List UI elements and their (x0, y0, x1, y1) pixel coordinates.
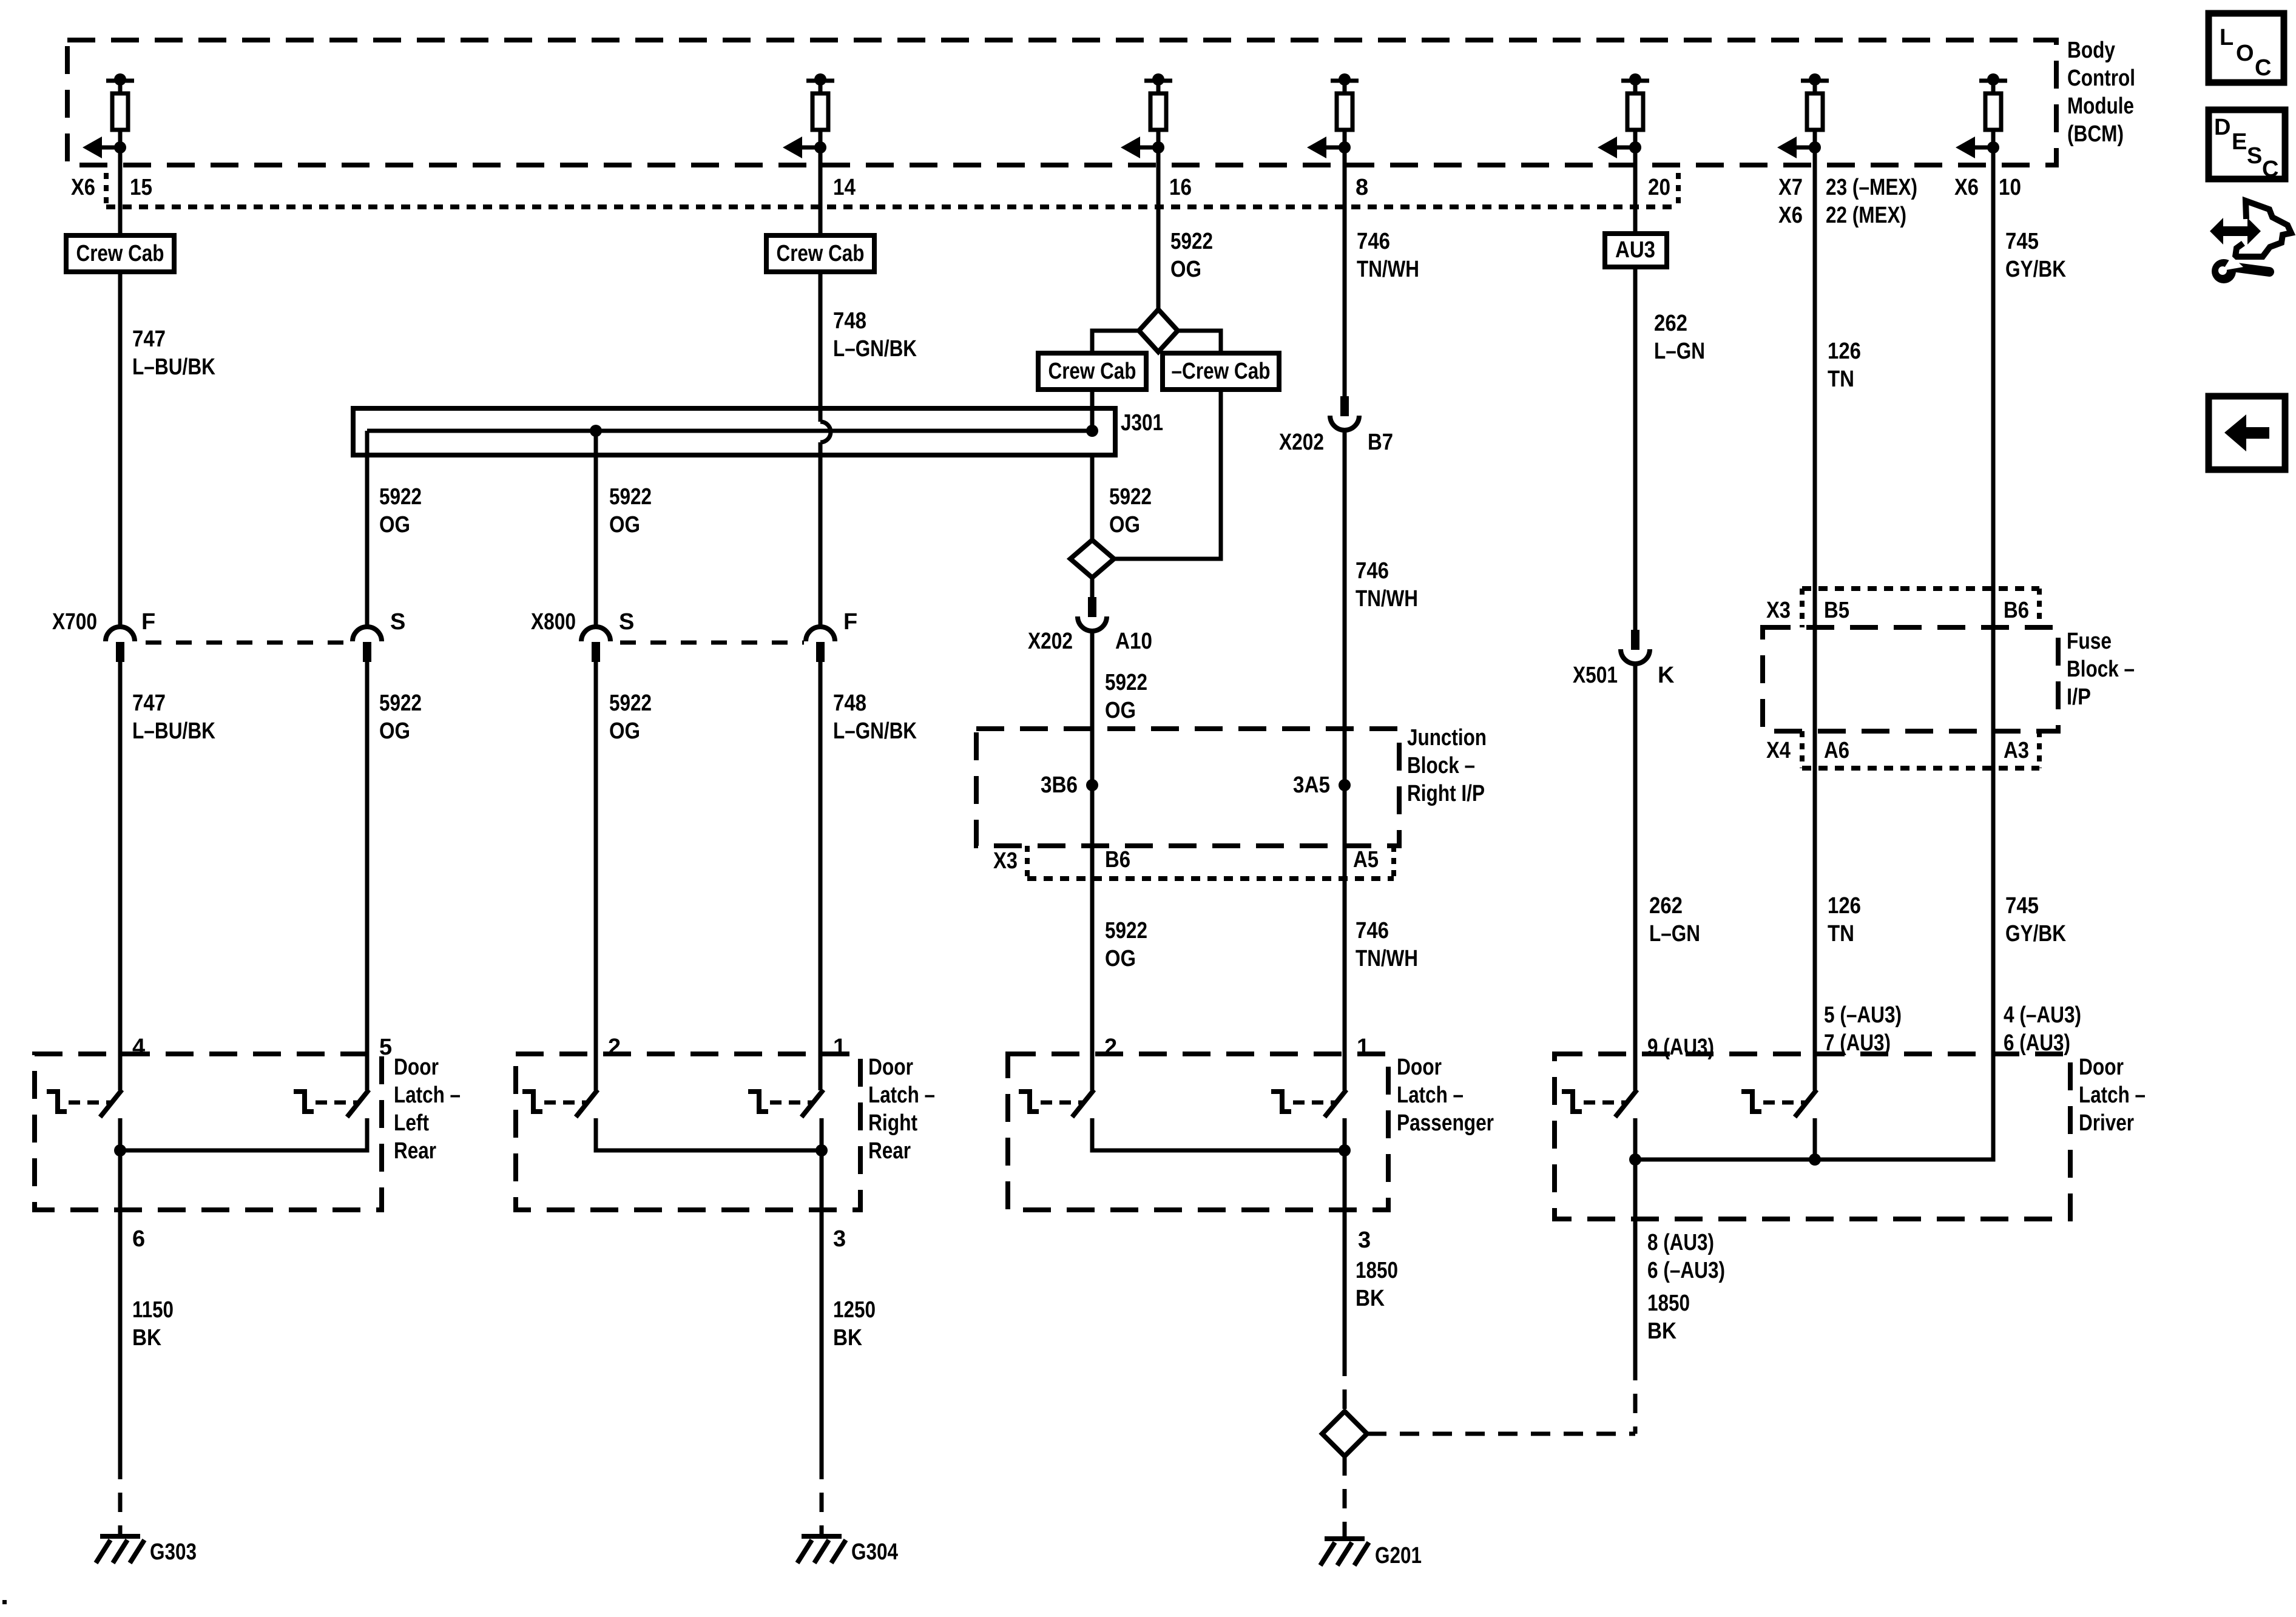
switch blade (right rear, pin1) (802, 1090, 823, 1117)
svg-text:X6: X6 (71, 175, 95, 200)
svg-text:5: 5 (379, 1035, 392, 1060)
svg-text:20: 20 (1648, 175, 1670, 200)
junction dot col3 bus (590, 425, 602, 437)
svg-text:23 (–MEX): 23 (–MEX) (1826, 175, 1917, 200)
svg-text:14: 14 (833, 175, 856, 200)
svg-text:3: 3 (833, 1226, 846, 1252)
rejoin diamond (option merge) (1070, 540, 1114, 578)
svg-text:X7: X7 (1778, 175, 1803, 200)
junction dot left rear (114, 1144, 126, 1156)
dashed wire splice diamond to G201 (1343, 1456, 1347, 1536)
svg-text:OG: OG (1170, 257, 1201, 282)
svg-text:OG: OG (609, 512, 640, 538)
svg-text:OG: OG (379, 718, 410, 744)
wire 5922 OG from pin 16 (1156, 165, 1161, 309)
svg-text:747: 747 (132, 326, 166, 352)
svg-text:3B6: 3B6 (1041, 772, 1078, 798)
svg-text:L: L (2220, 25, 2234, 50)
svg-text:4 (–AU3): 4 (–AU3) (2004, 1002, 2081, 1028)
svg-text:746: 746 (1356, 918, 1389, 944)
Body Control Module (BCM) dashed box (67, 40, 2056, 165)
ajar switch plunger (driver, pins 5/7) (1741, 1092, 1761, 1112)
svg-text:748: 748 (833, 690, 866, 716)
switch blade (right rear, pin2) (576, 1090, 598, 1117)
junction dot passenger (1339, 1144, 1351, 1156)
wire 747 lower segment (118, 662, 123, 1090)
switch blade (passenger, pin1) (1325, 1090, 1346, 1117)
svg-text:262: 262 (1654, 311, 1687, 336)
BCM internal driver / resistor at pin column 7 (1979, 79, 2007, 83)
svg-text:Door: Door (868, 1055, 913, 1080)
svg-text:A6: A6 (1824, 738, 1849, 763)
svg-text:GY/BK: GY/BK (2005, 921, 2066, 947)
svg-text:X4: X4 (1766, 738, 1791, 763)
BCM internal driver / resistor at pin column 5 (1621, 79, 1649, 83)
Door Latch - Left Rear dashed box (35, 1054, 382, 1210)
svg-text:5922: 5922 (1170, 229, 1213, 254)
junction dot driver pin9 (1629, 1153, 1641, 1166)
svg-text:F: F (843, 609, 857, 635)
svg-text:6: 6 (132, 1226, 145, 1252)
Door Latch - Driver dashed box (1555, 1054, 2070, 1219)
BCM internal driver / resistor at pin column 1 (106, 79, 134, 83)
back arrow icon box (2209, 396, 2285, 470)
junction dot right rear (815, 1144, 828, 1156)
wire below switch pin2 + jog to pin1 wire (1092, 1118, 1345, 1150)
switch blade (left rear, pin5) (347, 1090, 369, 1117)
ajar switch plunger (right rear, pin1) (748, 1092, 768, 1112)
svg-text:Control: Control (2067, 66, 2135, 91)
svg-text:16: 16 (1169, 175, 1192, 200)
wire col5 to junction block (1090, 631, 1095, 785)
svg-text:OG: OG (609, 718, 640, 744)
ajar switch plunger (left rear, pin4) (47, 1092, 67, 1112)
svg-text:J301: J301 (1121, 410, 1163, 436)
svg-text:Block –: Block – (1407, 753, 1475, 778)
LOC icon box (2209, 13, 2284, 83)
svg-text:8 (AU3): 8 (AU3) (1647, 1230, 1714, 1255)
BCM output arrow (1974, 146, 1993, 150)
Fuse Block - I/P dashed box (1763, 627, 2058, 731)
svg-text:126: 126 (1828, 893, 1861, 919)
BCM output arrow (1616, 146, 1635, 150)
wire below switch pin1 through box (820, 1118, 824, 1460)
svg-text:AU3: AU3 (1615, 237, 1655, 263)
svg-text:X6: X6 (1954, 175, 1979, 200)
svg-text:Block –: Block – (2067, 657, 2135, 682)
wire pin14 to Crew Cab option box (819, 165, 823, 235)
dashed wire to G303 (118, 1460, 123, 1534)
wire 746 from pin 8 (1343, 165, 1347, 396)
svg-text:1150: 1150 (132, 1297, 174, 1323)
svg-text:7 (AU3): 7 (AU3) (1824, 1030, 1891, 1056)
svg-text:5 (–AU3): 5 (–AU3) (1824, 1002, 1902, 1028)
svg-text:–Crew Cab: –Crew Cab (1172, 359, 1271, 384)
svg-text:S: S (2247, 143, 2262, 169)
splice pack J301 box (353, 408, 1115, 455)
svg-text:GY/BK: GY/BK (2005, 257, 2066, 282)
ground G304 (802, 1534, 842, 1539)
svg-text:747: 747 (132, 690, 166, 716)
wire 126 TN from pins 23/22 (1813, 165, 1817, 1090)
wire col4 lower segment (819, 662, 823, 1090)
svg-text:Rear: Rear (394, 1138, 436, 1164)
Door Latch - Passenger dashed box (1008, 1054, 1388, 1210)
svg-text:Junction: Junction (1407, 725, 1487, 751)
splice diamond (ground splice) (1322, 1411, 1367, 1456)
wire below switch pin1 through box (1343, 1118, 1347, 1357)
svg-text:15: 15 (130, 175, 152, 200)
svg-text:5922: 5922 (609, 484, 652, 510)
connector X800 pin S (in-line) (581, 627, 610, 641)
BCM internal driver / resistor at pin column 2 (806, 79, 834, 83)
svg-text:10: 10 (1999, 175, 2021, 200)
svg-text:L–GN/BK: L–GN/BK (833, 718, 917, 744)
svg-text:BK: BK (833, 1325, 862, 1351)
svg-text:126: 126 (1828, 339, 1861, 364)
branch to -Crew Cab (1178, 331, 1221, 353)
svg-text:22 (MEX): 22 (MEX) (1826, 203, 1906, 228)
svg-text:G303: G303 (150, 1539, 197, 1565)
svg-text:OG: OG (1105, 946, 1136, 971)
wire J301 to rejoin diamond (1090, 455, 1095, 540)
svg-text:S: S (619, 609, 634, 635)
BCM internal driver / resistor at pin column 4 (1331, 79, 1359, 83)
wire 5922 from J301 to X800 (594, 431, 598, 627)
J301 internal bus (367, 429, 1092, 433)
svg-text:Door: Door (1397, 1055, 1442, 1080)
ajar switch plunger (passenger, pin1) (1271, 1092, 1291, 1112)
wire -Crew Cab box to rejoin diamond (1114, 390, 1221, 559)
svg-text:Crew Cab: Crew Cab (76, 241, 164, 266)
svg-text:D: D (2214, 115, 2230, 140)
switch blade (passenger, pin2) (1072, 1090, 1094, 1117)
BCM output arrow (1139, 146, 1158, 150)
svg-text:C: C (2255, 55, 2271, 81)
svg-text:1850: 1850 (1356, 1258, 1398, 1283)
wire 745 GY/BK from pin 10 (1991, 165, 1996, 1054)
svg-text:2: 2 (1104, 1035, 1117, 1060)
svg-text:X202: X202 (1279, 430, 1324, 455)
wire 747 upper segment (118, 272, 123, 627)
wire col5 to passenger latch (1090, 879, 1095, 1090)
splice diamond (Crew Cab option split) (1139, 309, 1178, 352)
svg-text:Right: Right (868, 1110, 917, 1136)
ground G201 (1325, 1536, 1365, 1541)
svg-text:TN: TN (1828, 366, 1854, 392)
svg-text:X3: X3 (1766, 598, 1791, 623)
svg-text:BK: BK (1647, 1318, 1676, 1344)
wire 5922 from J301 splice (365, 431, 370, 627)
wire 748 upper segment (819, 272, 823, 408)
wire col3 lower segment (594, 662, 598, 1090)
BCM internal driver / resistor at pin column 6 (1801, 79, 1829, 83)
wire col2 lower segment (365, 662, 370, 1090)
ajar switch plunger (passenger, pin2) (1019, 1092, 1039, 1112)
svg-text:OG: OG (1109, 512, 1140, 538)
BCM output arrow (101, 146, 120, 150)
svg-text:L–BU/BK: L–BU/BK (132, 718, 215, 744)
wire col6 to junction block (1343, 430, 1347, 785)
svg-text:(BCM): (BCM) (2067, 121, 2124, 147)
svg-text:6 (AU3): 6 (AU3) (2004, 1030, 2070, 1056)
svg-text:1: 1 (833, 1035, 846, 1060)
svg-text:G201: G201 (1375, 1543, 1422, 1568)
svg-text:1: 1 (1357, 1035, 1369, 1060)
svg-text:Left: Left (394, 1110, 429, 1136)
wire col9 into driver latch (1635, 1054, 1993, 1160)
wire below switch pin4 through box (118, 1118, 123, 1460)
svg-text:3: 3 (1358, 1227, 1371, 1253)
ajar switch plunger (driver, pin9) (1562, 1092, 1582, 1112)
wire col5 junction block to X3 B6 (1090, 785, 1095, 879)
svg-text:A3: A3 (2004, 738, 2029, 763)
junction 3A5 (1339, 779, 1351, 791)
connector mating dashed line X800 S-F (620, 641, 804, 645)
BCM internal driver / resistor at pin column 3 (1144, 79, 1172, 83)
svg-text:X501: X501 (1573, 663, 1618, 688)
wire pin15 to Crew Cab option box (118, 165, 123, 235)
svg-text:OG: OG (1105, 698, 1136, 723)
wire 262 upper segment (1633, 267, 1638, 630)
connector X202 pin A10 (in-line) (1088, 597, 1096, 617)
wire col6 to passenger latch (1343, 879, 1347, 1090)
svg-text:B6: B6 (2004, 598, 2029, 623)
svg-text:Fuse: Fuse (2067, 629, 2112, 654)
svg-text:X202: X202 (1028, 629, 1073, 654)
wire below driver switches with junction bus (1633, 1118, 1638, 1361)
option box Crew Cab (col4) (766, 235, 874, 272)
BCM output arrow (1325, 146, 1345, 150)
svg-text:O: O (2236, 41, 2254, 66)
switch blade (driver, pins 5/7) (1795, 1090, 1817, 1117)
svg-text:Latch –: Latch – (868, 1082, 935, 1108)
svg-text:Latch –: Latch – (394, 1082, 461, 1108)
svg-text:5922: 5922 (1105, 670, 1147, 695)
svg-text:A10: A10 (1115, 629, 1152, 654)
Junction Block - Right I/P dashed box (976, 729, 1399, 846)
dashed wire to splice diamond (1343, 1357, 1347, 1411)
svg-text:K: K (1658, 663, 1675, 688)
BCM output arrow (1795, 146, 1815, 150)
svg-text:C: C (2262, 157, 2278, 182)
svg-text:Latch –: Latch – (2079, 1082, 2146, 1108)
wire below switch pin2 + jog to pin1 wire (596, 1118, 822, 1150)
svg-text:L–GN: L–GN (1649, 921, 1700, 947)
svg-text:Module: Module (2067, 93, 2134, 119)
ground G303 (100, 1534, 140, 1539)
svg-text:746: 746 (1356, 558, 1389, 584)
svg-text:G304: G304 (851, 1539, 898, 1565)
junction 3B6 (1086, 779, 1098, 791)
svg-text:X6: X6 (1778, 203, 1803, 228)
svg-text:745: 745 (2005, 893, 2039, 919)
wire below switch pin5 + jog to pin4 wire (120, 1118, 367, 1150)
svg-text:3A5: 3A5 (1293, 772, 1330, 798)
svg-text:X700: X700 (52, 609, 97, 635)
dashed wire to G304 (820, 1460, 824, 1534)
dashed branch from driver latch to splice diamond (1367, 1432, 1635, 1436)
Fuse Block bottom connector band X4 (dotted) (1800, 731, 1805, 768)
svg-text:Body: Body (2067, 38, 2115, 63)
svg-text:1850: 1850 (1647, 1291, 1690, 1316)
svg-text:E: E (2232, 129, 2247, 155)
connector X700 pin F (in-line) (106, 627, 135, 641)
junction dot col5 bus (1086, 425, 1098, 437)
option box Crew Cab (left) (66, 235, 174, 272)
wire diamond to X202 A10 (1090, 578, 1095, 597)
option box AU3 (1605, 234, 1667, 267)
svg-text:Right I/P: Right I/P (1407, 781, 1485, 806)
svg-text:TN/WH: TN/WH (1356, 946, 1418, 971)
svg-text:Crew Cab: Crew Cab (1048, 359, 1136, 384)
ajar switch plunger (left rear, pin5) (294, 1092, 314, 1112)
svg-text:Door: Door (2079, 1055, 2124, 1080)
wire 748 through J301 with hop (819, 408, 823, 422)
BCM connector band (dotted) (104, 173, 109, 207)
svg-text:5922: 5922 (379, 690, 422, 716)
BCM output arrow (801, 146, 820, 150)
svg-text:1250: 1250 (833, 1297, 876, 1323)
svg-text:OG: OG (379, 512, 410, 538)
connector X202 pin B7 (in-line) (1340, 396, 1349, 416)
svg-text:4: 4 (132, 1035, 145, 1060)
switch blade (left rear, pin4) (100, 1090, 122, 1117)
svg-text:9 (AU3): 9 (AU3) (1647, 1035, 1714, 1060)
connector X3 band (dotted) (1025, 846, 1030, 879)
svg-text:TN/WH: TN/WH (1356, 586, 1418, 612)
svg-text:5922: 5922 (609, 690, 652, 716)
svg-text:2: 2 (608, 1035, 621, 1060)
svg-text:5922: 5922 (1105, 918, 1147, 944)
branch to Crew Cab (1092, 331, 1139, 353)
svg-text:262: 262 (1649, 893, 1683, 919)
svg-text:745: 745 (2005, 229, 2039, 254)
svg-text:L–BU/BK: L–BU/BK (132, 354, 215, 380)
wire pin 20 to AU3 option box (1633, 165, 1638, 234)
svg-text:TN: TN (1828, 921, 1854, 947)
svg-text:B7: B7 (1368, 430, 1393, 455)
svg-text:BK: BK (1356, 1286, 1385, 1311)
svg-text:L–GN/BK: L–GN/BK (833, 336, 917, 362)
svg-text:Door: Door (394, 1055, 439, 1080)
page artifact dot (2, 1600, 7, 1604)
Door Latch - Right Rear dashed box (516, 1054, 860, 1210)
switch blade (driver, pin9) (1615, 1090, 1637, 1117)
junction dot driver pin5/7 (1809, 1153, 1821, 1166)
svg-text:6 (–AU3): 6 (–AU3) (1647, 1258, 1725, 1283)
ajar switch plunger (right rear, pin2) (522, 1092, 542, 1112)
svg-text:B6: B6 (1105, 847, 1130, 873)
svg-text:F: F (141, 609, 155, 635)
svg-text:X3: X3 (993, 848, 1018, 874)
connector mating dashed line X700 F-S (146, 641, 351, 645)
DESC icon box (2209, 110, 2285, 179)
svg-text:Passenger: Passenger (1397, 1110, 1494, 1136)
wire col6 junction block to X3 A5 (1343, 785, 1347, 879)
svg-text:S: S (390, 609, 405, 635)
connector pin F (in-line, col4) (806, 627, 835, 641)
svg-text:5922: 5922 (379, 484, 422, 510)
connector X501 pin K (in-line) (1631, 630, 1639, 650)
svg-text:8: 8 (1356, 175, 1368, 200)
svg-text:Rear: Rear (868, 1138, 911, 1164)
svg-text:I/P: I/P (2067, 684, 2091, 710)
svg-text:748: 748 (833, 308, 866, 334)
Fuse Block top connector band X3 (dotted) (1802, 586, 2039, 591)
svg-text:BK: BK (132, 1325, 161, 1351)
connector pin S (in-line, col2) (353, 627, 382, 641)
svg-text:B5: B5 (1824, 598, 1849, 623)
svg-text:L–GN: L–GN (1654, 339, 1705, 364)
svg-text:A5: A5 (1353, 847, 1379, 873)
wire Crew Cab box to J301 (1090, 390, 1095, 431)
svg-text:746: 746 (1357, 229, 1390, 254)
svg-text:Crew Cab: Crew Cab (777, 241, 865, 266)
option box Crew Cab (col5) (1038, 353, 1146, 390)
svg-text:X800: X800 (531, 609, 576, 635)
svg-text:Latch –: Latch – (1397, 1082, 1464, 1108)
testing/repair icon: double arrow into connector with wrench (2210, 218, 2261, 245)
svg-text:TN/WH: TN/WH (1357, 257, 1419, 282)
wire col7 lower segment (1633, 664, 1638, 1090)
svg-text:5922: 5922 (1109, 484, 1152, 510)
option box -Crew Cab (1163, 353, 1279, 390)
svg-text:Driver: Driver (2079, 1110, 2134, 1136)
